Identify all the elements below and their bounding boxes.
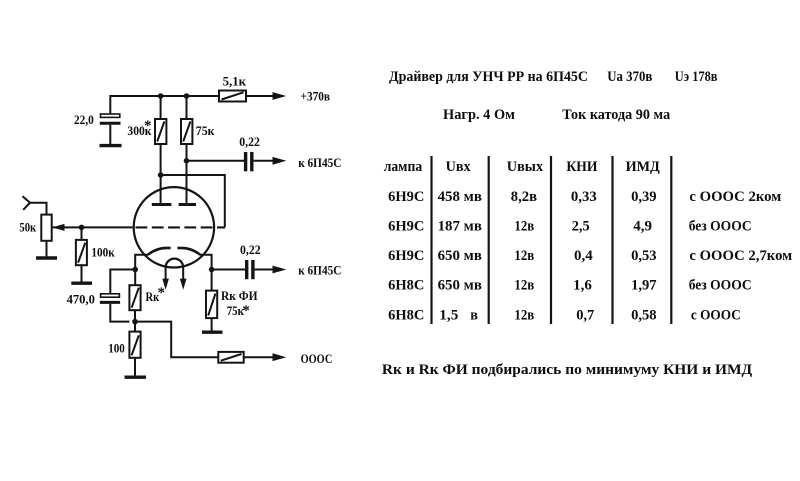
svg-text:*: * (158, 285, 166, 301)
wire rail to 300k (160, 96, 162, 119)
junction node anode1-grid2 (158, 172, 164, 178)
heater arrow left (162, 279, 169, 290)
wire bottom node to OOOC resistor (135, 322, 218, 358)
junction node Rk-100 (132, 319, 138, 325)
svg-text:75к: 75к (196, 123, 215, 138)
wire top supply rail (110, 96, 219, 114)
svg-text:1,6: 1,6 (573, 277, 592, 293)
svg-text:50к: 50к (19, 220, 36, 235)
table separator 3 (550, 156, 552, 324)
wire input to pot (30, 203, 47, 215)
ground below 100k (71, 282, 92, 285)
capacitor 22,0 top plate (hollow) (101, 114, 120, 117)
wire pot wiper to grid1 (52, 226, 133, 228)
capacitor 470,0 bottom plate (100, 301, 120, 304)
svg-text:к 6П45С: к 6П45С (298, 155, 341, 170)
ground below RkFI (202, 331, 223, 334)
junction node cathode2 (209, 267, 215, 273)
resistor RkFI body (206, 291, 217, 319)
resistor 100k body (76, 240, 87, 265)
wire left anode to grid2 riser (161, 175, 225, 227)
junction node wiper-100k (79, 225, 85, 231)
svg-text:КНИ: КНИ (566, 159, 597, 175)
svg-text:1,97: 1,97 (631, 277, 657, 293)
arrow OOOC (273, 353, 287, 361)
arrow to 6P45S bottom (273, 266, 287, 274)
svg-text:Драйвер для УНЧ РР на 6П45С: Драйвер для УНЧ РР на 6П45С (389, 69, 588, 85)
svg-text:2,5: 2,5 (572, 218, 590, 234)
wire cathode right to RkFI node (200, 255, 212, 291)
wire cap 22,0 to ground (109, 125, 111, 144)
wire rail to 75k (186, 96, 188, 119)
wire pot to ground (46, 241, 48, 257)
svg-text:650 мв: 650 мв (438, 248, 482, 264)
svg-text:Ток катода 90 ма: Ток катода 90 ма (562, 107, 670, 123)
svg-text:458 мв: 458 мв (438, 189, 482, 205)
anode plate right (179, 203, 196, 206)
svg-text:12в: 12в (514, 308, 534, 324)
svg-text:Uэ 178в: Uэ 178в (675, 69, 718, 85)
svg-text:Uвых: Uвых (507, 159, 544, 175)
svg-text:470,0: 470,0 (67, 291, 95, 306)
svg-text:ОООС: ОООС (301, 351, 333, 366)
cathode right arc (177, 248, 200, 255)
wire cap to output arrow top (254, 160, 273, 162)
junction node anode2-cap (184, 158, 190, 164)
svg-text:0,53: 0,53 (631, 248, 657, 264)
capacitor 22,0 bottom plate (100, 122, 121, 125)
table separator 1 (430, 156, 432, 324)
svg-text:4,9: 4,9 (633, 218, 652, 234)
resistor 100 body (129, 332, 140, 358)
svg-text:650 мв: 650 мв (438, 277, 482, 293)
resistor 5,1k body (219, 91, 246, 102)
svg-text:0,33: 0,33 (571, 189, 597, 205)
input fork terminal (23, 196, 31, 210)
grid dashed line (136, 226, 226, 228)
resistor 300k body (155, 119, 166, 144)
arrow to 6P45S top (273, 157, 287, 165)
table separator 5 (670, 156, 672, 324)
ground below 100 (125, 376, 147, 379)
svg-text:5,1к: 5,1к (223, 74, 247, 89)
capacitor 470,0 top plate (hollow) (101, 294, 120, 297)
wire OOOC resistor to arrow (244, 356, 273, 358)
heater lead right (182, 267, 184, 279)
svg-text:100: 100 (108, 341, 125, 356)
wire grid node to 100k (81, 227, 83, 240)
svg-text:6Н8С: 6Н8С (388, 277, 424, 293)
arrow +370v (273, 92, 287, 100)
resistor 75k body (181, 119, 192, 144)
svg-text:+370в: +370в (301, 89, 331, 104)
svg-text:Rк ФИ: Rк ФИ (221, 288, 258, 303)
svg-text:100к: 100к (91, 245, 115, 260)
svg-text:12в: 12в (514, 277, 534, 293)
ground below 50k (36, 256, 57, 259)
wire rail to arrow (246, 95, 273, 97)
tube envelope U1 (134, 187, 214, 267)
svg-text:22,0: 22,0 (74, 112, 94, 127)
wire right anode to coupling cap (187, 160, 245, 162)
ground below 22,0 (100, 144, 122, 147)
svg-text:*: * (144, 118, 152, 134)
heater lead left (165, 267, 167, 279)
table separator 2 (488, 156, 490, 324)
table separator 4 (611, 156, 613, 324)
wire 100 to ground (134, 358, 136, 376)
resistor OOOC body (218, 352, 243, 363)
svg-text:0,58: 0,58 (631, 308, 657, 324)
svg-text:12в: 12в (514, 248, 534, 264)
svg-text:с ОООС 2ком: с ОООС 2ком (689, 189, 781, 205)
wire 300k to left plate (160, 144, 162, 204)
wire RkFI to ground (211, 318, 213, 331)
junction node cathode1 (132, 267, 138, 273)
capacitor 0,22 upper plates (246, 152, 252, 171)
svg-text:*: * (242, 303, 250, 319)
wire node to 470,0 (110, 270, 135, 294)
potentiometer 50k body (41, 215, 51, 241)
svg-text:8,2в: 8,2в (511, 189, 537, 205)
svg-text:без ОООС: без ОООС (689, 218, 752, 234)
svg-text:к 6П45С: к 6П45С (298, 263, 341, 278)
heater loop (166, 259, 184, 268)
wire Rk to bottom node (134, 310, 136, 331)
svg-text:6Н9С: 6Н9С (388, 189, 424, 205)
svg-text:12в: 12в (514, 218, 534, 234)
wire 470,0 to bottom node (110, 304, 129, 322)
svg-text:0,39: 0,39 (631, 189, 657, 205)
svg-text:6Н8С: 6Н8С (388, 308, 424, 324)
svg-text:лампа: лампа (384, 159, 423, 175)
pot wiper arrow (52, 224, 65, 231)
svg-text:6Н9С: 6Н9С (388, 248, 424, 264)
svg-text:Нагр. 4 Ом: Нагр. 4 Ом (443, 107, 515, 123)
svg-text:Uа 370в: Uа 370в (607, 69, 652, 85)
svg-text:187 мв: 187 мв (438, 218, 482, 234)
svg-text:Rк и Rк ФИ подбирались по: Rк и Rк ФИ подбирались по минимуму КНИ и… (382, 362, 753, 378)
svg-text:0,4: 0,4 (574, 248, 593, 264)
svg-text:Uвх: Uвх (446, 159, 471, 175)
svg-text:0,22: 0,22 (240, 242, 261, 257)
svg-text:0,22: 0,22 (239, 134, 260, 149)
wire node to lower coupling cap (212, 269, 245, 271)
svg-text:с ОООС 2,7ком: с ОООС 2,7ком (689, 248, 792, 264)
capacitor 0,22 lower plates (247, 260, 253, 279)
heater arrow right (180, 279, 187, 290)
resistor Rk body (129, 285, 140, 310)
svg-text:6Н9С: 6Н9С (388, 218, 424, 234)
svg-text:без ОООС: без ОООС (689, 277, 752, 293)
wire cap to output arrow bottom (255, 269, 273, 271)
svg-text:1,5: 1,5 (439, 308, 458, 324)
svg-text:0,7: 0,7 (576, 308, 595, 324)
wire cathode left to Rk node (135, 255, 148, 285)
wire 100k to ground (81, 265, 83, 282)
cathode left arc (148, 248, 171, 255)
junction node rail-75k (184, 93, 190, 99)
wire 75k to right plate (186, 144, 188, 204)
svg-text:в: в (470, 308, 478, 324)
junction node rail-300k (158, 93, 164, 99)
anode plate left (152, 203, 172, 206)
svg-text:ИМД: ИМД (626, 159, 661, 175)
svg-text:с ОООС: с ОООС (691, 308, 741, 324)
